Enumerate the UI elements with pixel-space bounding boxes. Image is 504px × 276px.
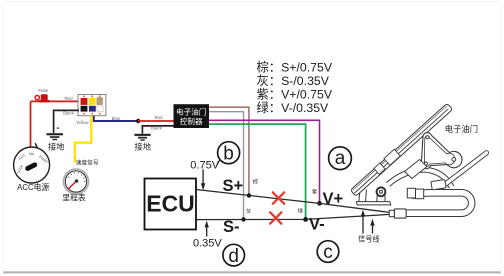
wire blue (94, 116, 137, 121)
connector pin tan (97, 97, 103, 105)
svg-text:V-: V- (309, 216, 325, 234)
connector pin white (97, 106, 103, 112)
wire green V- (209, 124, 306, 219)
svg-text:Red: Red (154, 115, 163, 120)
svg-text:Blue: Blue (112, 116, 121, 121)
svg-text:棕: 棕 (253, 177, 258, 185)
svg-text:ACC电源: ACC电源 (17, 182, 49, 192)
bracket hole bottom (424, 162, 427, 165)
connector pin navy (89, 106, 96, 112)
fuse F1 body (39, 94, 50, 102)
roller hole (452, 158, 456, 162)
tube collar right (431, 179, 446, 189)
svg-text:Black: Black (151, 126, 163, 131)
junction node dot (136, 119, 140, 123)
pedal assembly (350, 102, 487, 218)
circled letter a (329, 147, 352, 170)
connector plus marks top (83, 95, 101, 97)
bracket foot (405, 160, 428, 179)
signal line S- diagonal (196, 214, 390, 219)
circled letter b (217, 142, 240, 165)
svg-text:Fuse: Fuse (38, 88, 48, 93)
connector block J1 (78, 95, 106, 116)
throttle rod (441, 153, 487, 188)
svg-text:Red: Red (64, 96, 73, 101)
throttle controller U1 (174, 104, 210, 128)
odometer gauge (64, 169, 89, 194)
circled letter c (317, 241, 339, 264)
tube collar left pair (407, 188, 415, 198)
wire gray S- (209, 112, 244, 219)
svg-text:接地: 接地 (48, 142, 64, 152)
svg-text:电子油门: 电子油门 (176, 107, 206, 117)
connector plus marks bottom (83, 113, 101, 115)
fuse ring terminal (35, 96, 39, 100)
svg-text:电子油门: 电子油门 (445, 124, 478, 134)
node green on S- (303, 217, 308, 222)
connector pin black (81, 106, 88, 112)
svg-text:里程表: 里程表 (62, 192, 86, 202)
pedal base bar (356, 202, 391, 205)
svg-text:接地: 接地 (135, 142, 151, 152)
wire purple V+ (209, 120, 320, 203)
bottom shadow line (3, 271, 501, 273)
circled letter d (223, 244, 245, 267)
svg-text:c: c (323, 242, 333, 263)
svg-text:Black: Black (63, 111, 75, 116)
pedal plate (350, 102, 453, 196)
svg-text:信号线: 信号线 (358, 234, 380, 243)
svg-text:紫: 紫 (312, 188, 317, 195)
cut mark X2 (270, 212, 281, 223)
svg-text:Yellow: Yellow (76, 120, 89, 125)
wire red ACC power vertical (30, 101, 32, 147)
signal wire arrow 1 (361, 210, 365, 234)
svg-text:S-: S- (223, 218, 240, 236)
wire red ACC-to-fuse horizontal (31, 100, 83, 102)
signal wire arrow 2 (370, 219, 374, 234)
node gray on S- (241, 217, 245, 221)
pedal lower mount struts (359, 190, 385, 202)
svg-text:d: d (228, 246, 239, 267)
ground G1 (46, 128, 63, 141)
cable connector plug (394, 209, 406, 218)
svg-text:ECU: ECU (146, 191, 195, 217)
svg-text:0.75V: 0.75V (190, 160, 219, 172)
svg-text:0.35V: 0.35V (193, 238, 222, 250)
svg-text:a: a (335, 148, 346, 169)
svg-text:S+: S+ (223, 177, 244, 195)
arrow 0.35V up (205, 221, 209, 237)
svg-text:b: b (223, 144, 234, 165)
svg-text:灰: 灰 (246, 207, 251, 215)
pedal hinge ring (377, 187, 386, 196)
node purple on S+ (317, 201, 322, 206)
svg-text:灰：S-/0.35V: 灰：S-/0.35V (257, 74, 330, 88)
svg-text:紫：V+/0.75V: 紫：V+/0.75V (257, 88, 333, 102)
signal line S+ diagonal (196, 190, 390, 213)
svg-text:速度信号: 速度信号 (76, 158, 99, 166)
svg-text:V+: V+ (323, 190, 344, 208)
svg-text:绿: 绿 (298, 206, 304, 214)
ground G2 (134, 134, 150, 141)
svg-text:绿：V-/0.35V: 绿：V-/0.35V (257, 100, 330, 115)
ignition switch ACC (14, 143, 50, 183)
arrow 0.75V down (201, 170, 205, 191)
wire red to controller (138, 120, 174, 122)
pedal bracket (421, 133, 462, 169)
ECU box (145, 179, 197, 230)
wire yellow speed signal (75, 116, 92, 163)
cable tube (406, 193, 472, 213)
connector pin yellow (89, 98, 96, 105)
node brown on S+ (247, 193, 251, 197)
connector pin red (81, 98, 88, 105)
cut mark X1 (273, 192, 284, 203)
wire black to ground 1 (54, 110, 79, 133)
bracket hole top (426, 136, 429, 139)
pedal arm band (388, 170, 452, 188)
wire black to ground 2 (142, 126, 173, 134)
svg-text:控制器: 控制器 (180, 116, 203, 126)
wire brown S+ (209, 107, 249, 195)
svg-text:棕：S+/0.75V: 棕：S+/0.75V (257, 59, 333, 74)
